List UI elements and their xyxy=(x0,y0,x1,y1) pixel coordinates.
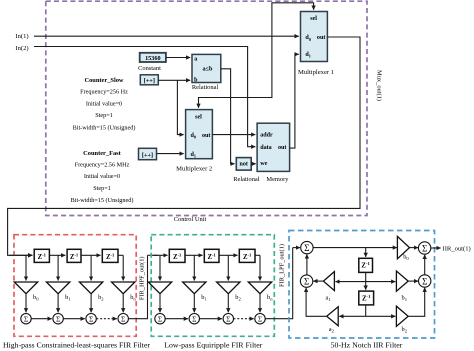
wire delay 1 output to tap 2 of LPF xyxy=(185,254,203,256)
High-pass FIR filter boundary box xyxy=(14,235,136,337)
svg-text:Bit-width=15 (Unsigned): Bit-width=15 (Unsigned) xyxy=(71,197,134,204)
wire delay 3 output to tap 4 of LPF xyxy=(255,254,260,256)
relational block a&#8804;b xyxy=(192,54,221,82)
svg-text:Relational: Relational xyxy=(192,84,218,91)
wire relational output to mux selects and not gate xyxy=(221,69,235,164)
svg-text:d1: d1 xyxy=(305,52,310,59)
adder (sum) 1 of LPF xyxy=(155,314,165,324)
multiplexer 2 block xyxy=(186,110,213,159)
svg-text:Step=1: Step=1 xyxy=(95,112,113,119)
gain triangle ('b', '2') of LPF xyxy=(217,282,240,294)
wire multiplexer2 out to memory addr xyxy=(212,134,255,136)
svg-text:Σ: Σ xyxy=(304,243,309,253)
svg-text:In(2): In(2) xyxy=(15,45,28,52)
wire gain 1 to adder 1 of LPF xyxy=(159,294,161,313)
svg-text:Σ: Σ xyxy=(89,314,93,323)
gain triangle b1 xyxy=(396,271,408,291)
wire S2 to S1 xyxy=(306,254,308,275)
wire S5 to output IIR_out(1) xyxy=(431,247,441,249)
wire top tap down into delay Z1 xyxy=(365,248,367,257)
svg-text:d0: d0 xyxy=(191,133,196,140)
svg-text:Σ: Σ xyxy=(258,314,262,323)
wire adder 1 to adder 2 of HPF xyxy=(31,318,52,320)
delay block Z-1 lower of IIR xyxy=(359,291,374,305)
wire gain 3 to adder 3 of HPF xyxy=(90,294,92,313)
wire In(2) to memory data input xyxy=(34,47,255,147)
wire gain 4 to adder 4 of HPF xyxy=(122,294,124,313)
wire input line into HPF xyxy=(9,254,32,256)
wire gain 1 to adder 1 of HPF xyxy=(25,294,27,313)
wire HPF output into LPF xyxy=(148,254,159,256)
adder S6 of IIR xyxy=(419,275,431,287)
wire tap 4 down to gain of LPF xyxy=(259,255,261,280)
wire gain 3 to adder 3 of LPF xyxy=(227,294,229,313)
svg-text:In(1): In(1) xyxy=(15,33,28,40)
wire Counter_Fast to multiplexer2 d1 xyxy=(157,153,184,155)
wire constant 15360 to relational a xyxy=(166,57,190,59)
gain triangle a2 (feedback) xyxy=(327,307,339,326)
gain triangle ('b', 'n') of HPF xyxy=(112,282,135,294)
delay block Z-1 upper of IIR xyxy=(359,258,373,272)
wire delay 2 output to tap 3 of LPF xyxy=(219,254,238,256)
wire multiplexer1 out to filters (Mux_out) xyxy=(8,37,360,255)
svg-text:Initial value=0: Initial value=0 xyxy=(84,173,120,180)
svg-text:Control Unit: Control Unit xyxy=(174,216,207,223)
Low-pass FIR filter boundary box xyxy=(151,235,274,337)
svg-text:sel: sel xyxy=(310,16,317,22)
svg-text:Σ: Σ xyxy=(24,314,28,323)
wire Z2 to bottom node xyxy=(365,305,367,316)
svg-text:Σ: Σ xyxy=(226,314,230,323)
wire tap 2 down to gain of HPF xyxy=(57,255,59,280)
delay block Z-1 #1 of LPF xyxy=(169,249,185,262)
counter Counter_Fast block [++] xyxy=(139,148,157,159)
wire Counter_Slow to relational b and multiplexer2 d0 xyxy=(158,79,190,81)
wire output of LPF xyxy=(265,248,293,319)
wire tap 2 down to gain of LPF xyxy=(193,255,195,280)
gain triangle b0 of LPF xyxy=(148,282,171,294)
svg-text:we: we xyxy=(260,161,267,167)
wire bottom node to a2 gain (left) xyxy=(339,315,365,317)
svg-text:Counter_Fast: Counter_Fast xyxy=(83,150,122,157)
IIR notch filter boundary box xyxy=(289,231,435,339)
wire Z1 to Z2 through mid node xyxy=(365,272,367,289)
svg-text:Constant: Constant xyxy=(138,65,161,72)
wire bottom node to b2 gain (right) xyxy=(366,315,396,317)
delay block Z-1 #2 of HPF xyxy=(67,249,81,262)
svg-text:Σ: Σ xyxy=(304,276,309,286)
svg-text:Multiplexer 1: Multiplexer 1 xyxy=(298,69,334,76)
adder S2 of IIR (feedback sum) xyxy=(300,275,312,287)
gain triangle a1 (feedback) xyxy=(323,272,334,291)
wire adder 2 to adder 3 of LPF xyxy=(200,318,222,320)
svg-text:IIR_out(1): IIR_out(1) xyxy=(443,245,471,252)
wire tap 1 down to gain of LPF xyxy=(159,255,161,280)
svg-text:15360: 15360 xyxy=(145,55,160,62)
svg-text:Low-pass Equiripple FIR Filter: Low-pass Equiripple FIR Filter xyxy=(164,340,263,349)
svg-text:d0: d0 xyxy=(305,35,310,42)
svg-text:Σ: Σ xyxy=(192,314,196,323)
wire tap 4 down to gain of HPF xyxy=(122,255,124,280)
svg-text:d1: d1 xyxy=(191,152,196,159)
gain triangle ('b', 'n') of LPF xyxy=(248,282,271,294)
wire gain 4 to adder 4 of LPF xyxy=(259,294,261,313)
gain triangle ('b', '2') of HPF xyxy=(79,282,102,294)
svg-text:50-Hz Notch IIR Filter: 50-Hz Notch IIR Filter xyxy=(331,340,403,349)
gain triangle b2 xyxy=(396,306,408,326)
wire b0 to S5 xyxy=(410,247,419,249)
wire b1 to S6 xyxy=(408,280,418,282)
svg-text:out: out xyxy=(278,145,286,151)
svg-text:Σ: Σ xyxy=(422,243,427,253)
svg-text:addr: addr xyxy=(260,132,273,138)
svg-text:not: not xyxy=(240,161,248,167)
svg-text:out: out xyxy=(317,35,325,41)
wire a2 to S2 bottom xyxy=(306,288,327,316)
memory block xyxy=(257,123,290,171)
wire tap 3 down to gain of HPF xyxy=(90,255,92,280)
delay block Z-1 #3 of LPF xyxy=(239,249,255,262)
logical not block xyxy=(236,158,251,171)
wire gain 2 to adder 2 of HPF xyxy=(57,294,59,313)
svg-text:a≤b: a≤b xyxy=(203,66,213,73)
wire adder 3 to adder 4 of LPF xyxy=(234,318,254,320)
wire output of HPF xyxy=(128,255,147,318)
adder (sum) 2 of HPF xyxy=(53,314,63,324)
wire mid node to b1 gain (right) xyxy=(366,281,396,283)
adder (sum) 3 of HPF xyxy=(86,314,96,324)
svg-text:Relational: Relational xyxy=(233,176,259,183)
svg-text:sel: sel xyxy=(195,114,202,120)
gain triangle ('b', '1') of HPF xyxy=(46,282,69,294)
wire S1 out along top to b0 gain, tap to Z1 xyxy=(313,247,397,249)
svg-text:Initial value=0: Initial value=0 xyxy=(86,101,122,108)
wire In(1) to multiplexer1 d0 xyxy=(34,35,299,37)
wire select net to multiplexer2 sel xyxy=(199,98,231,108)
svg-text:Σ: Σ xyxy=(422,276,427,286)
delay block Z-1 #2 of LPF xyxy=(204,249,219,262)
svg-text:[++]: [++] xyxy=(144,77,155,84)
svg-text:Memory: Memory xyxy=(266,176,289,183)
adder (sum) 3 of LPF xyxy=(223,314,233,324)
wire adder 3 to adder 4 of HPF xyxy=(96,318,117,320)
wire input line into LPF xyxy=(153,254,168,256)
svg-text:Multiplexer 2: Multiplexer 2 xyxy=(176,165,212,172)
wire LPF output into IIR adder 1 xyxy=(293,247,300,249)
adder S1 of IIR (input sum) xyxy=(301,241,313,253)
gain triangle b0 xyxy=(397,236,409,258)
svg-text:a: a xyxy=(194,56,197,62)
svg-text:Counter_Slow: Counter_Slow xyxy=(84,77,123,84)
wire b2 to S6 bottom xyxy=(408,288,425,317)
counter Counter_Slow block [++] xyxy=(140,75,158,85)
svg-text:Σ: Σ xyxy=(121,314,125,323)
svg-text:FIR_LPF_out(1): FIR_LPF_out(1) xyxy=(279,244,286,287)
gain triangle ('b', '0') of HPF xyxy=(14,282,37,294)
wire tap 1 down to gain of HPF xyxy=(25,255,27,280)
wire delay 1 output to tap 2 of HPF xyxy=(49,254,65,256)
wire delay 3 output to tap 4 of HPF xyxy=(118,254,123,256)
wire gain 2 to adder 2 of LPF xyxy=(193,294,195,313)
delay block Z-1 #1 of HPF xyxy=(34,249,49,262)
wire delay 2 output to tap 3 of HPF xyxy=(81,254,101,256)
wire adder 1 to adder 2 of LPF xyxy=(165,318,188,320)
adder (sum) 4 of LPF xyxy=(255,314,265,324)
svg-text:Frequency=256 Hz: Frequency=256 Hz xyxy=(80,89,128,96)
wire adder 2 to adder 3 of HPF xyxy=(63,318,84,320)
svg-text:High-pass Constrained-least-sq: High-pass Constrained-least-squares FIR … xyxy=(3,340,150,349)
svg-text:Σ: Σ xyxy=(158,314,162,323)
gain triangle ('b', '1') of LPF xyxy=(183,282,206,294)
multiplexer 1 block xyxy=(301,12,328,62)
svg-text:out: out xyxy=(202,133,210,139)
svg-text:Frequency=2.56 MHz: Frequency=2.56 MHz xyxy=(75,162,130,169)
wire a1 to S2 xyxy=(313,280,323,282)
wire memory out to multiplexer1 d1 xyxy=(290,54,299,148)
adder S5 of IIR (output sum) xyxy=(418,242,430,254)
wire S6 to S5 xyxy=(424,255,426,275)
adder (sum) 1 of HPF xyxy=(21,314,31,324)
wire mid node to a1 gain (left) xyxy=(336,281,366,283)
wire not output to memory we xyxy=(251,163,256,165)
constant block 15360 xyxy=(140,53,166,62)
adder (sum) 4 of HPF xyxy=(118,314,128,324)
svg-text:Mux_out(1): Mux_out(1) xyxy=(376,70,383,101)
delay block Z-1 #3 of HPF xyxy=(102,249,118,262)
svg-text:FIR_HPF_out(1): FIR_HPF_out(1) xyxy=(139,256,146,300)
wire tap 3 down to gain of LPF xyxy=(227,255,229,280)
control unit boundary box xyxy=(46,1,367,215)
svg-text:[++]: [++] xyxy=(142,152,153,159)
svg-text:Σ: Σ xyxy=(56,314,60,323)
svg-text:Bit-width=15 (Unsigned): Bit-width=15 (Unsigned) xyxy=(73,125,136,132)
wire select net to multiplexer1 sel xyxy=(231,3,314,98)
adder (sum) 2 of LPF xyxy=(189,314,199,324)
svg-text:data: data xyxy=(260,145,272,151)
svg-text:Step=1: Step=1 xyxy=(93,185,111,192)
